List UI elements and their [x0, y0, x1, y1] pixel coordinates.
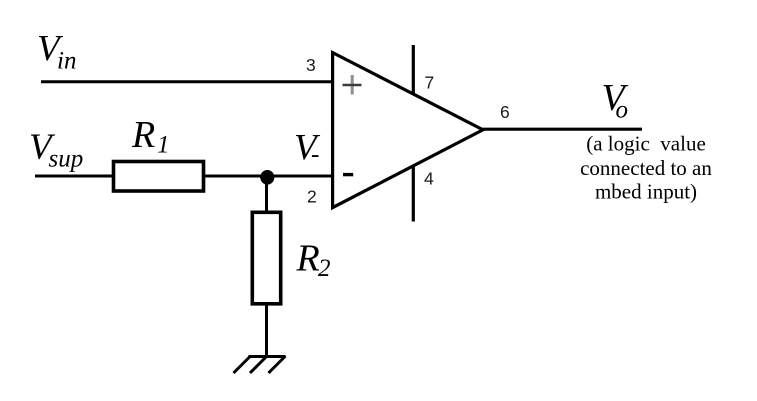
svg-text:connected to an: connected to an — [580, 156, 712, 180]
power rail line pins 7 and 4 — [412, 45, 415, 222]
label Vin — [37, 29, 76, 75]
svg-text:-: - — [311, 141, 319, 168]
wire node to R2 — [265, 177, 268, 212]
svg-text:2: 2 — [318, 255, 331, 282]
label R1 — [131, 114, 170, 159]
svg-text:in: in — [57, 48, 76, 75]
svg-text:(a logic value: (a logic value — [586, 132, 706, 156]
svg-text:o: o — [616, 97, 629, 124]
op-amp U1 — [333, 53, 483, 208]
label Vsup — [29, 127, 83, 173]
svg-text:R: R — [131, 114, 155, 156]
svg-text:mbed input): mbed input) — [595, 180, 697, 204]
svg-text:sup: sup — [49, 146, 84, 173]
annotation text — [580, 132, 712, 204]
wire Vin to op-amp pin 3 — [41, 80, 332, 83]
svg-text:1: 1 — [157, 132, 170, 159]
resistor R2 — [252, 212, 280, 303]
wire R1 to node — [205, 175, 267, 178]
wire op-amp output — [483, 128, 642, 131]
label R2 — [296, 238, 331, 283]
op-amp plus input marker — [343, 75, 362, 95]
svg-text:2: 2 — [307, 186, 317, 206]
svg-text:R: R — [296, 238, 320, 280]
svg-text:3: 3 — [306, 55, 316, 75]
op-amp minus input marker — [343, 173, 353, 176]
resistor R1 — [114, 162, 204, 192]
node V- junction dot — [260, 170, 274, 185]
wire R2 to ground — [265, 304, 268, 357]
svg-text:6: 6 — [500, 102, 510, 122]
label Vo — [602, 77, 629, 124]
wire node to op-amp pin 2 — [267, 175, 332, 178]
ground — [234, 356, 286, 373]
svg-text:4: 4 — [424, 169, 434, 189]
wire Vsup to R1 — [35, 175, 112, 178]
label V- — [294, 127, 321, 168]
svg-text:7: 7 — [425, 72, 435, 92]
